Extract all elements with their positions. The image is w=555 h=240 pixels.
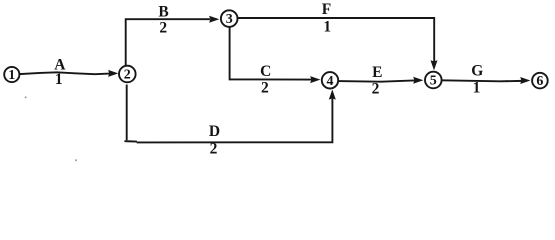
svg-text:B: B [158, 3, 168, 20]
wire B elbow (node2 up, right to node3) [126, 19, 209, 65]
svg-text:E: E [372, 64, 382, 81]
svg-text:6: 6 [536, 74, 543, 89]
svg-text:F: F [322, 1, 331, 18]
wire C elbow (node3 down, right to node4) [230, 27, 311, 79]
wire F elbow (node3 right, down to node5) [238, 18, 434, 61]
svg-text:1: 1 [55, 71, 63, 88]
node 1 circle [4, 67, 19, 82]
node 2 circle [119, 66, 136, 83]
arrowhead C into node4 [310, 76, 320, 83]
node 3 circle [221, 10, 238, 27]
speck bottom near D [75, 159, 77, 161]
arrowhead F down into node5 [431, 60, 438, 70]
arrowhead A into node2 [108, 70, 118, 77]
arrowhead G into node6 [520, 77, 530, 84]
svg-text:4: 4 [327, 74, 334, 89]
svg-text:2: 2 [124, 68, 131, 83]
wire D corner dash [125, 140, 136, 142]
wire G (node5 to node6) [442, 80, 521, 81]
svg-text:D: D [209, 123, 220, 140]
svg-text:2: 2 [159, 20, 167, 37]
node 4 circle [322, 72, 338, 88]
svg-text:G: G [471, 63, 483, 80]
arrowhead B into node3 [209, 16, 219, 23]
wire A (node1 to node2) [20, 72, 109, 74]
svg-text:2: 2 [261, 80, 269, 97]
svg-text:1: 1 [323, 19, 331, 36]
speck top-left of D loop [25, 96, 27, 98]
node 5 circle [425, 72, 442, 89]
svg-text:3: 3 [226, 12, 233, 27]
arrowhead E into node5 [413, 77, 423, 84]
wire E (node4 to node5) [338, 81, 413, 82]
svg-text:1: 1 [473, 80, 481, 97]
svg-text:5: 5 [430, 74, 437, 89]
wire D horizontal and rise to node4 [138, 100, 333, 143]
node 6 circle [532, 73, 548, 89]
svg-text:2: 2 [210, 141, 218, 158]
wire D vertical drop from node2 [126, 86, 128, 140]
svg-text:C: C [260, 63, 271, 80]
svg-text:2: 2 [372, 81, 380, 98]
arrowhead D up into node4 [329, 89, 336, 99]
svg-text:1: 1 [8, 68, 15, 83]
